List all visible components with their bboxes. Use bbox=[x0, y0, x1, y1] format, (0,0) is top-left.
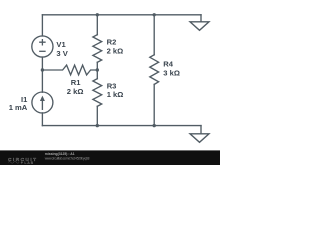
ground (bottom right) bbox=[190, 134, 209, 143]
ground (top right) bbox=[190, 22, 209, 31]
svg-text:R4: R4 bbox=[163, 60, 173, 69]
I1 arrow shaft bbox=[41, 99, 43, 109]
resistor R4 bbox=[150, 55, 159, 85]
wire: I1 bottom to bottom rail bbox=[41, 113, 43, 126]
svg-text:V1: V1 bbox=[56, 40, 66, 49]
junction node: middle column / R1 bbox=[96, 68, 99, 71]
svg-text:3 kΩ: 3 kΩ bbox=[163, 69, 180, 78]
svg-text:R1: R1 bbox=[71, 78, 81, 87]
wire: R3 bottom to bottom rail bbox=[96, 106, 98, 125]
svg-text:www.circuitlab.com/c7e24529byq: www.circuitlab.com/c7e24529byq68 bbox=[45, 157, 90, 161]
wire: R4 column top (rail to R4) bbox=[153, 15, 155, 55]
current source I1 circle bbox=[32, 92, 53, 113]
resistor R2 bbox=[93, 35, 102, 63]
svg-text:LAB: LAB bbox=[24, 161, 34, 165]
wire: bottom rail bbox=[42, 125, 201, 127]
wire: top rail bbox=[42, 14, 201, 16]
wire: left column top (rail to V1) bbox=[41, 15, 43, 36]
junction node: top rail / R4 column bbox=[153, 13, 156, 16]
wire: V1 bottom to node bbox=[41, 57, 43, 70]
I1 arrow head bbox=[40, 96, 45, 101]
junction node: bottom rail / middle column bbox=[96, 124, 99, 127]
wire: R2 bottom to node bbox=[96, 62, 98, 70]
wire: R4 bottom to bottom rail bbox=[153, 84, 155, 125]
resistor R3 bbox=[93, 79, 102, 107]
footer logo lightning bolt bbox=[21, 161, 24, 165]
wire: middle column top (rail to R2) bbox=[96, 15, 98, 35]
svg-text:2 kΩ: 2 kΩ bbox=[67, 87, 84, 96]
wire: bottom-right ground drop bbox=[200, 126, 202, 134]
voltage source V1 circle bbox=[32, 36, 53, 57]
junction node: bottom rail / R4 column bbox=[153, 124, 156, 127]
junction node: left column / R1 bbox=[41, 68, 44, 71]
resistor R1 (horizontal, between left node and middle column) bbox=[42, 65, 97, 75]
junction node: top rail / middle column bbox=[96, 13, 99, 16]
V1 plus sign bbox=[40, 40, 45, 45]
svg-text:1 kΩ: 1 kΩ bbox=[107, 90, 124, 99]
svg-text:2 kΩ: 2 kΩ bbox=[107, 47, 124, 56]
footer bar bbox=[0, 150, 220, 165]
wire: node to I1 top bbox=[41, 70, 43, 92]
V1 minus sign bbox=[40, 50, 45, 52]
svg-text:1 mA: 1 mA bbox=[9, 103, 28, 112]
wire: node to R3 top bbox=[96, 70, 98, 79]
wire: top-right ground drop bbox=[200, 15, 202, 22]
footer logo wave bbox=[8, 162, 19, 164]
svg-text:3 V: 3 V bbox=[56, 49, 68, 58]
svg-text:R2: R2 bbox=[107, 38, 117, 47]
